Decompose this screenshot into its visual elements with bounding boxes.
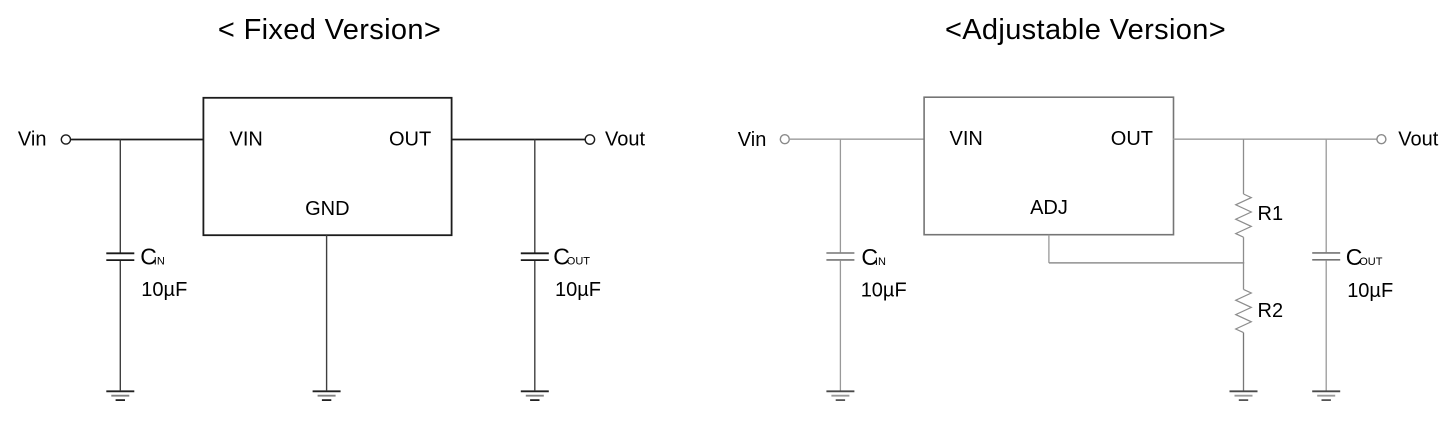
- wire OUT rail (right): [1174, 138, 1377, 140]
- svg-text:VIN: VIN: [230, 128, 263, 150]
- wire CIN branch lower (left): [119, 261, 121, 390]
- capacitor CIN (right) plates: [826, 253, 854, 260]
- wire CIN branch lower (right): [839, 261, 841, 391]
- svg-text:IN: IN: [154, 256, 165, 268]
- capacitor COUT (right) plates: [1312, 253, 1340, 260]
- resistor R1: [1236, 194, 1252, 237]
- terminal Vout (left): [585, 135, 594, 144]
- wire Vin input (left): [71, 139, 204, 141]
- wire ADJ to divider horizontal (right): [1049, 262, 1244, 264]
- svg-text:< Fixed Version>: < Fixed Version>: [218, 14, 441, 46]
- svg-text:IN: IN: [875, 256, 886, 268]
- wire GND pin (left): [326, 235, 328, 390]
- svg-text:<Adjustable Version>: <Adjustable Version>: [945, 14, 1226, 46]
- wire ADJ pin vertical (right): [1048, 235, 1050, 263]
- ground for CIN (left): [106, 391, 134, 400]
- capacitor CIN (left) plates: [106, 253, 134, 260]
- wire OUT output (left): [452, 139, 586, 141]
- svg-text:VIN: VIN: [950, 128, 983, 150]
- label CIN (left): [140, 244, 165, 270]
- svg-text:ADJ: ADJ: [1030, 197, 1068, 219]
- svg-text:Vout: Vout: [1398, 129, 1438, 151]
- wire R2 top lead (right): [1243, 263, 1245, 290]
- wire CIN branch upper (right): [839, 139, 841, 252]
- label CIN (right): [861, 244, 886, 270]
- wire R1 top lead (right): [1243, 139, 1245, 194]
- terminal Vout (right): [1377, 135, 1386, 144]
- svg-text:OUT: OUT: [567, 256, 591, 268]
- wire COUT branch upper (left): [534, 140, 536, 253]
- svg-text:10µF: 10µF: [1347, 280, 1393, 302]
- svg-text:10µF: 10µF: [555, 279, 601, 301]
- resistor R2: [1236, 289, 1252, 332]
- label COUT (right): [1346, 244, 1383, 270]
- svg-text:OUT: OUT: [1111, 128, 1153, 150]
- wire COUT branch upper (right): [1325, 139, 1327, 252]
- terminal Vin (right): [780, 135, 789, 144]
- ground for GND pin (left): [313, 391, 341, 400]
- svg-text:OUT: OUT: [1359, 256, 1383, 268]
- ground for COUT (right): [1312, 391, 1340, 400]
- svg-text:GND: GND: [305, 198, 349, 220]
- capacitor COUT (left) plates: [521, 253, 549, 260]
- wire Vin input (right): [790, 138, 925, 140]
- svg-text:Vin: Vin: [738, 129, 767, 151]
- svg-text:OUT: OUT: [389, 128, 431, 150]
- label COUT (left): [553, 244, 590, 270]
- wire R2 bottom lead (right): [1243, 333, 1245, 391]
- ground for R2 (right): [1230, 391, 1258, 400]
- ground for COUT (left): [521, 391, 549, 400]
- wire COUT branch lower (right): [1325, 261, 1327, 391]
- svg-text:R1: R1: [1258, 203, 1284, 225]
- regulator U2 box (right): [924, 97, 1173, 235]
- ground for CIN (right): [826, 391, 854, 400]
- svg-text:R2: R2: [1258, 300, 1284, 322]
- wire COUT branch lower (left): [534, 261, 536, 390]
- wire R1 bottom lead (right): [1243, 237, 1245, 263]
- regulator U1 box (left): [203, 98, 451, 235]
- wire CIN branch upper (left): [119, 140, 121, 253]
- svg-text:10µF: 10µF: [141, 279, 187, 301]
- svg-text:10µF: 10µF: [861, 280, 907, 302]
- svg-text:Vin: Vin: [18, 128, 47, 150]
- terminal Vin (left): [61, 135, 70, 144]
- svg-text:Vout: Vout: [605, 128, 645, 150]
